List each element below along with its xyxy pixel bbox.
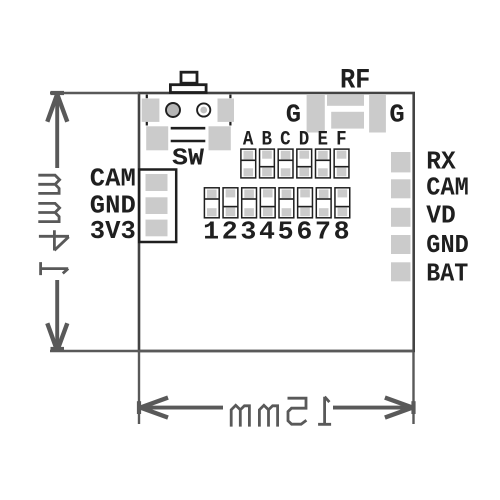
- svg-text:4: 4: [259, 217, 275, 247]
- dimension 15mm arrowhead right: [411, 401, 415, 414]
- svg-text:5: 5: [278, 217, 294, 247]
- jumper B: [260, 149, 275, 178]
- svg-text:CAM: CAM: [90, 165, 136, 194]
- svg-text:F: F: [336, 129, 347, 152]
- dimension 15mm arrow shaft: [141, 406, 223, 410]
- pushbutton SW base: [170, 85, 206, 93]
- dimension 14mm arrowhead up: [51, 91, 65, 95]
- svg-text:C: C: [280, 129, 291, 152]
- jumper 3: [242, 188, 257, 218]
- svg-text:CAM: CAM: [426, 173, 469, 202]
- dimension 15mm arrowhead left: [137, 401, 141, 414]
- svg-text:RF: RF: [340, 66, 371, 97]
- jumper 5: [279, 188, 294, 218]
- jumper 4: [260, 188, 275, 218]
- switch hole right (annular): [197, 103, 210, 116]
- jumper 1: [204, 188, 219, 218]
- jumper 2: [223, 188, 238, 218]
- left connector pad 3V3: [146, 220, 168, 237]
- pad CAM right: [391, 179, 411, 198]
- svg-text:VD: VD: [426, 202, 456, 231]
- svg-text:2: 2: [222, 217, 238, 247]
- dimension 15mm extension line left: [138, 352, 140, 424]
- svg-text:A: A: [243, 129, 254, 152]
- svg-text:B: B: [262, 129, 273, 152]
- switch pad top-right: [218, 99, 235, 122]
- svg-text:BAT: BAT: [426, 259, 468, 288]
- RF pad center signal: [331, 112, 364, 129]
- svg-text:D: D: [299, 129, 310, 152]
- svg-text:8: 8: [334, 217, 350, 247]
- pushbutton SW cap: [181, 72, 197, 83]
- svg-text:GND: GND: [426, 231, 469, 260]
- switch pad bottom-left: [146, 126, 168, 150]
- jumper A: [241, 149, 256, 178]
- svg-text:G: G: [286, 101, 301, 130]
- svg-text:RX: RX: [426, 147, 456, 176]
- pad GND right: [391, 235, 411, 254]
- dimension 15mm extension line right: [412, 352, 414, 424]
- pad RX right: [391, 152, 411, 172]
- switch silk line 2: [171, 140, 206, 143]
- dimension 14mm mirrored text: [38, 175, 69, 275]
- switch silk line 1: [171, 127, 206, 130]
- pad VD right: [391, 208, 411, 227]
- switch corner tick marks: [146, 95, 148, 99]
- RF pad top: [327, 95, 364, 106]
- jumper 6: [298, 188, 313, 218]
- svg-text:G: G: [389, 101, 404, 130]
- PCB board outline: [139, 93, 414, 351]
- left connector pad GND: [146, 197, 168, 214]
- switch pad top-left: [142, 99, 160, 122]
- svg-text:3V3: 3V3: [90, 217, 136, 246]
- jumper 8: [335, 188, 350, 218]
- jumper D: [297, 149, 312, 178]
- RF pad left ground: [307, 95, 325, 133]
- pad BAT right: [391, 262, 411, 281]
- switch hole left (filled): [166, 103, 180, 117]
- jumper E: [316, 149, 331, 178]
- switch pad bottom-right: [209, 126, 231, 150]
- dimension 14mm extension line top: [50, 92, 139, 94]
- dimension 15mm mirrored text: [231, 397, 331, 427]
- svg-text:7: 7: [315, 217, 331, 247]
- svg-text:1: 1: [203, 217, 219, 247]
- svg-text:E: E: [317, 129, 328, 152]
- jumper F: [334, 149, 349, 178]
- left connector outline: [139, 170, 176, 243]
- dimension 14mm extension line bottom (continues as board bottom edge): [50, 350, 414, 353]
- svg-text:6: 6: [296, 217, 312, 247]
- jumper 7: [316, 188, 331, 218]
- left connector pad CAM: [146, 174, 168, 191]
- dimension 14mm arrow shaft: [55, 95, 59, 168]
- jumper C: [278, 149, 293, 178]
- RF pad right ground: [369, 95, 386, 133]
- svg-text:3: 3: [240, 217, 256, 247]
- dimension 14mm arrowhead down: [51, 347, 65, 351]
